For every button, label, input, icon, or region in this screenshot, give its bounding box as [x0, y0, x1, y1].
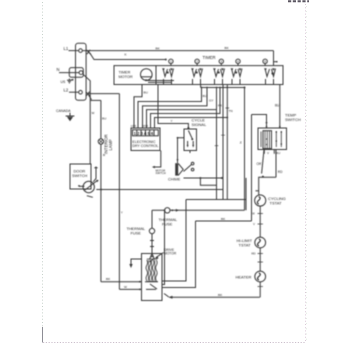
- svg-text:V: V: [253, 222, 255, 226]
- wire low run to tstat leg: [196, 220, 252, 222]
- wire L2 lead: [69, 91, 79, 93]
- svg-text:Y: Y: [171, 119, 173, 123]
- temp switch box: [258, 128, 287, 150]
- timer pin 4: [236, 59, 240, 63]
- svg-text:FUSE: FUSE: [162, 221, 173, 226]
- wire fuse riser to bus: [244, 88, 246, 211]
- dry control terminal strip: [133, 130, 159, 136]
- chime output run: [184, 177, 224, 179]
- svg-text:TIMER: TIMER: [119, 71, 131, 75]
- wire F2: [138, 88, 202, 129]
- pin stubs: [171, 64, 265, 66]
- wire F1 timer to dry control pin1: [134, 85, 142, 129]
- wire N vertical to door switch: [89, 100, 91, 164]
- svg-text:TIMER: TIMER: [203, 55, 216, 60]
- electronic dry control box: [131, 128, 160, 151]
- door switch: [83, 181, 94, 192]
- cycle signal left feed + chime feed: [178, 138, 185, 163]
- wire pi leg down: [251, 115, 253, 222]
- label pin numbers: [170, 60, 266, 64]
- temp switch contacts: [261, 131, 281, 147]
- wire N diagonal to vertical: [83, 74, 90, 100]
- svg-text:GY: GY: [209, 99, 213, 103]
- svg-text:BU: BU: [144, 91, 148, 95]
- wire fuse vertical to motor: [150, 210, 154, 253]
- page border left bottom tick: [42, 327, 44, 343]
- wire L2 long vertical: [118, 94, 120, 290]
- motor internal links: [145, 282, 158, 290]
- wire lamp vertical: [100, 100, 102, 281]
- contact X at L2: [86, 92, 90, 97]
- pin6 side tick: [274, 61, 277, 63]
- motor windings: [146, 260, 148, 281]
- page border dotted right: [305, 4, 307, 342]
- svg-text:FUSE: FUSE: [131, 230, 142, 235]
- svg-text:MOTOR: MOTOR: [119, 75, 133, 79]
- wire L1 second run to pin 1: [90, 53, 166, 60]
- svg-text:TSTAT: TSTAT: [270, 201, 283, 206]
- wire RD stub down: [275, 150, 277, 178]
- temp switch top stubs: [267, 125, 280, 129]
- cycle signal box: [184, 129, 197, 151]
- svg-text:OR: OR: [257, 162, 262, 166]
- diagonal at L2: [89, 95, 92, 100]
- svg-text:123456: 123456: [134, 131, 155, 136]
- svg-text:BU: BU: [276, 151, 280, 155]
- wire cycling to hi-limit: [259, 206, 261, 237]
- wire to cycling tstat: [259, 177, 276, 195]
- timer pin 1: [169, 59, 173, 63]
- temp switch inner block: [263, 131, 272, 149]
- svg-text:TN: TN: [229, 109, 233, 113]
- svg-text:SWITCH: SWITCH: [156, 171, 166, 175]
- svg-text:L1: L1: [64, 46, 69, 51]
- svg-text:B: B: [103, 153, 105, 157]
- wire L1 run to timer right: [82, 50, 273, 52]
- svg-text:MOTOR: MOTOR: [164, 251, 177, 255]
- wire jog to lamp line: [90, 99, 101, 101]
- svg-text:W: W: [92, 111, 95, 115]
- drive motor label arrow: [156, 253, 164, 258]
- svg-text:BU: BU: [102, 117, 106, 121]
- arrow at N block: [70, 79, 73, 81]
- wire timer to temp switch: [279, 85, 281, 125]
- contact X at L1: [87, 50, 91, 55]
- svg-text:M34: M34: [143, 124, 149, 128]
- svg-text:TSTAT: TSTAT: [239, 243, 252, 248]
- wire heater to return: [259, 282, 261, 297]
- wire F4: [147, 88, 217, 200]
- wire jog near chime: [200, 178, 216, 185]
- svg-text:L2: L2: [64, 88, 69, 93]
- timer internal contacts: [163, 69, 174, 85]
- chime transducer: [175, 163, 178, 175]
- terminal block L1/L2: [76, 43, 87, 100]
- svg-text:DRY CONTROL: DRY CONTROL: [132, 144, 158, 148]
- thermal fuse upper: [165, 208, 170, 213]
- svg-text:CHIME: CHIME: [168, 178, 181, 182]
- svg-text:W: W: [252, 212, 255, 216]
- svg-text:Y: Y: [121, 211, 123, 215]
- timer pin 3: [219, 59, 223, 63]
- temp switch bottom stubs: [264, 150, 274, 154]
- wire chime to motor staircase: [186, 178, 246, 210]
- svg-text:SWITCH: SWITCH: [285, 117, 301, 122]
- wire F5: [151, 88, 221, 129]
- wire OR diagonal: [262, 150, 264, 174]
- wire hi-limit to heater: [259, 248, 261, 271]
- thermal fuse left: [149, 228, 154, 233]
- door switch left entry: [79, 185, 85, 187]
- svg-text:HEATER: HEATER: [236, 274, 252, 279]
- timer pin 6: [263, 59, 267, 63]
- wire L1 lead: [69, 50, 79, 52]
- timer motor symbol: [141, 69, 153, 81]
- heater: [255, 271, 266, 282]
- wire into drive motor lower-left: [119, 288, 141, 290]
- terminal L2: [79, 90, 83, 94]
- svg-text:RD: RD: [278, 170, 283, 174]
- chime terminals: [191, 162, 194, 165]
- svg-text:SWITCH: SWITCH: [72, 173, 88, 178]
- hi-limit tstat: [255, 237, 266, 248]
- drive motor box: [142, 254, 163, 301]
- riser R3 to motor: [162, 221, 196, 288]
- timer inner links under motor: [146, 81, 174, 83]
- wire N lead: [59, 72, 79, 74]
- svg-text:BU: BU: [275, 104, 280, 108]
- svg-text:LAMP: LAMP: [108, 139, 113, 150]
- svg-text:N: N: [57, 67, 60, 72]
- terminal N: [79, 71, 83, 75]
- page border dotted left: [42, 2, 44, 342]
- wire L1 drop into timer: [273, 51, 275, 66]
- wire F3: [143, 88, 208, 129]
- page border dark dash top right: [288, 0, 309, 2]
- door switch output run: [96, 189, 223, 191]
- page border dotted bottom: [43, 342, 306, 344]
- svg-text:Z: Z: [240, 141, 242, 145]
- svg-text:H35: H35: [131, 124, 137, 128]
- terminal L1: [79, 49, 83, 53]
- wire L2 run right: [88, 93, 119, 95]
- door switch box: [70, 164, 91, 189]
- svg-text:SIGNAL: SIGNAL: [192, 122, 207, 127]
- svg-text:US: US: [61, 80, 67, 84]
- terminal block N: [69, 68, 83, 78]
- timer outer box: [114, 66, 283, 85]
- svg-text:BU: BU: [203, 94, 207, 98]
- svg-text:CANADA: CANADA: [56, 109, 71, 113]
- door switch upper feed: [93, 167, 97, 182]
- riser R1 near motor edge: [162, 210, 165, 284]
- timer pin 2: [195, 59, 199, 63]
- wire drop V2 from timer: [226, 85, 228, 200]
- svg-text:RD: RD: [252, 252, 256, 256]
- timer motor divider: [155, 66, 157, 85]
- wire drop V1 from timer: [222, 85, 224, 200]
- bus below timer: [201, 85, 245, 88]
- wire into drive motor upper-left: [101, 281, 142, 283]
- riser R2 to motor: [162, 200, 186, 282]
- interior lamp: [98, 139, 103, 144]
- chassis arrow at motor: [131, 259, 142, 265]
- svg-text:W: W: [124, 285, 127, 289]
- cycle signal contacts: [188, 131, 192, 139]
- wire F6: [155, 118, 228, 129]
- ground CANADA: [66, 113, 75, 121]
- cycling tstat: [255, 195, 266, 206]
- heater return run: [170, 296, 260, 298]
- centrifugal switch: [150, 254, 155, 262]
- ground US: [67, 79, 72, 84]
- dry control output stub: [154, 151, 161, 168]
- cycle signal feed wire: [158, 85, 188, 130]
- wire pi over temp switch: [252, 115, 267, 125]
